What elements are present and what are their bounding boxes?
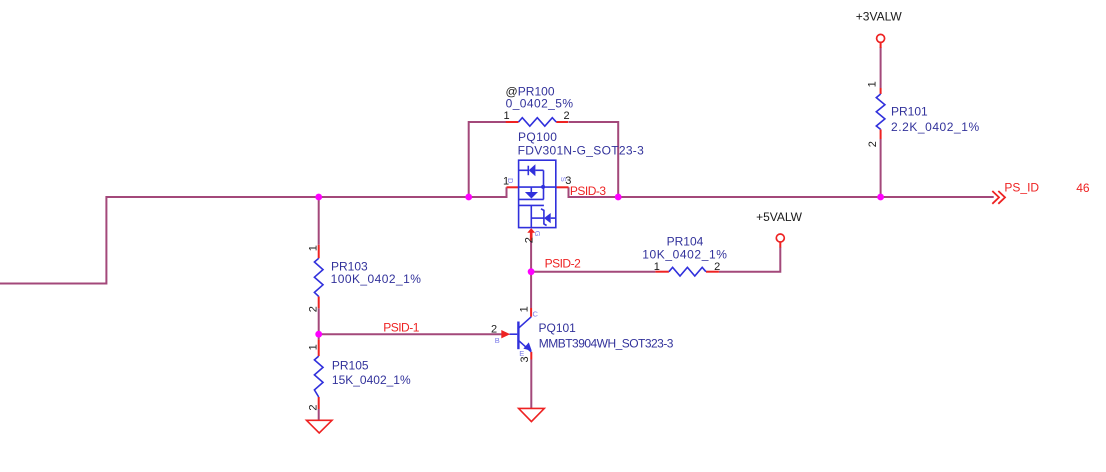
svg-text:S: S: [559, 177, 568, 182]
ground symbol (PR105): [307, 420, 333, 433]
wire: PR103 branch down from main net: [318, 197, 320, 245]
svg-text:1: 1: [654, 261, 660, 273]
off-page connector PS_ID chevrons: [992, 191, 1005, 204]
pin stub: PR104 pin1: [655, 271, 669, 273]
pin stub: Q101 collector: [530, 308, 532, 317]
wire: PSID-1 horizontal to Q101 base: [319, 333, 503, 335]
svg-text:2: 2: [307, 306, 319, 312]
pin stub: +5VALW terminal: [779, 242, 781, 248]
pin stub: PQ100 pin3: [556, 186, 569, 188]
pin stub: PR103 pin2: [318, 296, 320, 308]
node: PR103 tap: [315, 194, 322, 201]
pin stub: PR105 pin2: [318, 397, 320, 409]
resistor R PR105 zigzag: [314, 356, 323, 397]
mosfet U PQ100 body: [519, 160, 556, 227]
svg-text:PQ101: PQ101: [539, 321, 577, 335]
pin stub: PQ100 pin1: [507, 186, 519, 188]
node: PR100 left tap: [465, 194, 472, 201]
pin stub: PR100 pin2: [556, 121, 568, 123]
svg-text:2: 2: [307, 404, 319, 410]
resistor R PR101 zigzag: [876, 94, 885, 129]
svg-text:PR101: PR101: [891, 105, 928, 119]
wire: PR105 bottom to ground: [318, 409, 320, 420]
pin stub: PR105 pin1: [318, 340, 320, 357]
svg-text:D: D: [506, 178, 515, 184]
svg-text:1: 1: [519, 306, 531, 312]
wire: PR101 bottom to main net: [880, 139, 882, 197]
svg-text:PSID-2: PSID-2: [545, 257, 582, 271]
ground symbol (PQ101): [519, 408, 545, 421]
svg-text:MMBT3904WH_SOT323-3: MMBT3904WH_SOT323-3: [539, 336, 674, 350]
svg-text:1: 1: [307, 344, 319, 350]
svg-text:2: 2: [867, 141, 879, 147]
pin stub: PR104 pin2: [706, 271, 719, 273]
svg-text:PR104: PR104: [667, 234, 704, 248]
pin stub: Q101 emitter: [530, 352, 532, 360]
svg-text:10K_0402_1%: 10K_0402_1%: [642, 247, 727, 261]
transistor Q PQ101: [510, 317, 532, 352]
svg-text:B: B: [495, 336, 500, 345]
svg-text:2: 2: [564, 110, 570, 122]
svg-text:0_0402_5%: 0_0402_5%: [506, 96, 574, 110]
svg-text:1: 1: [307, 245, 319, 251]
wire: PR100 right leg: [569, 122, 619, 197]
svg-text:PSID-3: PSID-3: [570, 184, 607, 198]
wire: left entry net: [0, 187, 507, 283]
svg-text:100K_0402_1%: 100K_0402_1%: [331, 272, 422, 286]
wire: main net right of PQ100: [569, 187, 994, 197]
resistor R PR100 zigzag: [519, 118, 557, 127]
svg-text:2: 2: [491, 324, 497, 336]
power terminal +5VALW circle: [776, 234, 784, 242]
resistor R PR104 zigzag: [669, 267, 706, 276]
svg-text:PR105: PR105: [332, 358, 369, 372]
pin stub: PR101 pin1: [880, 88, 882, 94]
svg-text:1: 1: [504, 110, 510, 122]
svg-text:1: 1: [867, 81, 879, 87]
svg-text:+3VALW: +3VALW: [856, 10, 903, 24]
pin stub: PR100 pin1: [506, 121, 519, 123]
wire: PSID-2 horizontal to PR104: [531, 271, 655, 273]
node: PSID-3 tap: [615, 194, 622, 201]
node: PSID-1: [315, 331, 322, 338]
Q101 base arrow: [501, 330, 510, 338]
wire: +3VALW terminal down to PR101: [880, 47, 882, 88]
wire: PR104 to +5VALW terminal: [719, 247, 780, 272]
pin stub: +3VALW terminal: [880, 42, 882, 48]
node: PR101 tap: [877, 194, 884, 201]
wire: PR100 left leg: [469, 122, 507, 197]
power terminal +3VALW circle: [877, 34, 885, 42]
svg-text:2: 2: [714, 261, 720, 273]
svg-text:15K_0402_1%: 15K_0402_1%: [332, 373, 411, 387]
svg-text:+5VALW: +5VALW: [756, 210, 803, 224]
svg-text:2: 2: [523, 237, 535, 243]
wire: Q101 emitter to ground: [530, 360, 532, 409]
resistor R PR103 zigzag: [314, 258, 323, 296]
wire: PR103 bottom to PSID-1 node: [318, 308, 320, 339]
svg-text:PSID-1: PSID-1: [383, 321, 420, 335]
svg-text:46: 46: [1076, 181, 1090, 195]
svg-text:PQ100: PQ100: [518, 130, 557, 144]
svg-text:E: E: [519, 349, 524, 358]
svg-text:PS_ID: PS_ID: [1004, 181, 1039, 195]
wire: PSID-2 node down to Q101 collector: [530, 272, 532, 309]
svg-text:G: G: [533, 231, 542, 237]
node: PSID-2: [528, 268, 535, 275]
pin stub: PR101 pin2: [880, 129, 882, 139]
svg-text:2.2K_0402_1%: 2.2K_0402_1%: [891, 120, 980, 134]
svg-text:FDV301N-G_SOT23-3: FDV301N-G_SOT23-3: [518, 144, 645, 158]
pin stub: PR103 pin1: [318, 245, 320, 258]
pin stub: PQ100 gate with arrow: [530, 232, 533, 241]
wire: gate of PQ100 down to PSID-2 node: [530, 241, 532, 272]
svg-text:C: C: [533, 310, 539, 319]
